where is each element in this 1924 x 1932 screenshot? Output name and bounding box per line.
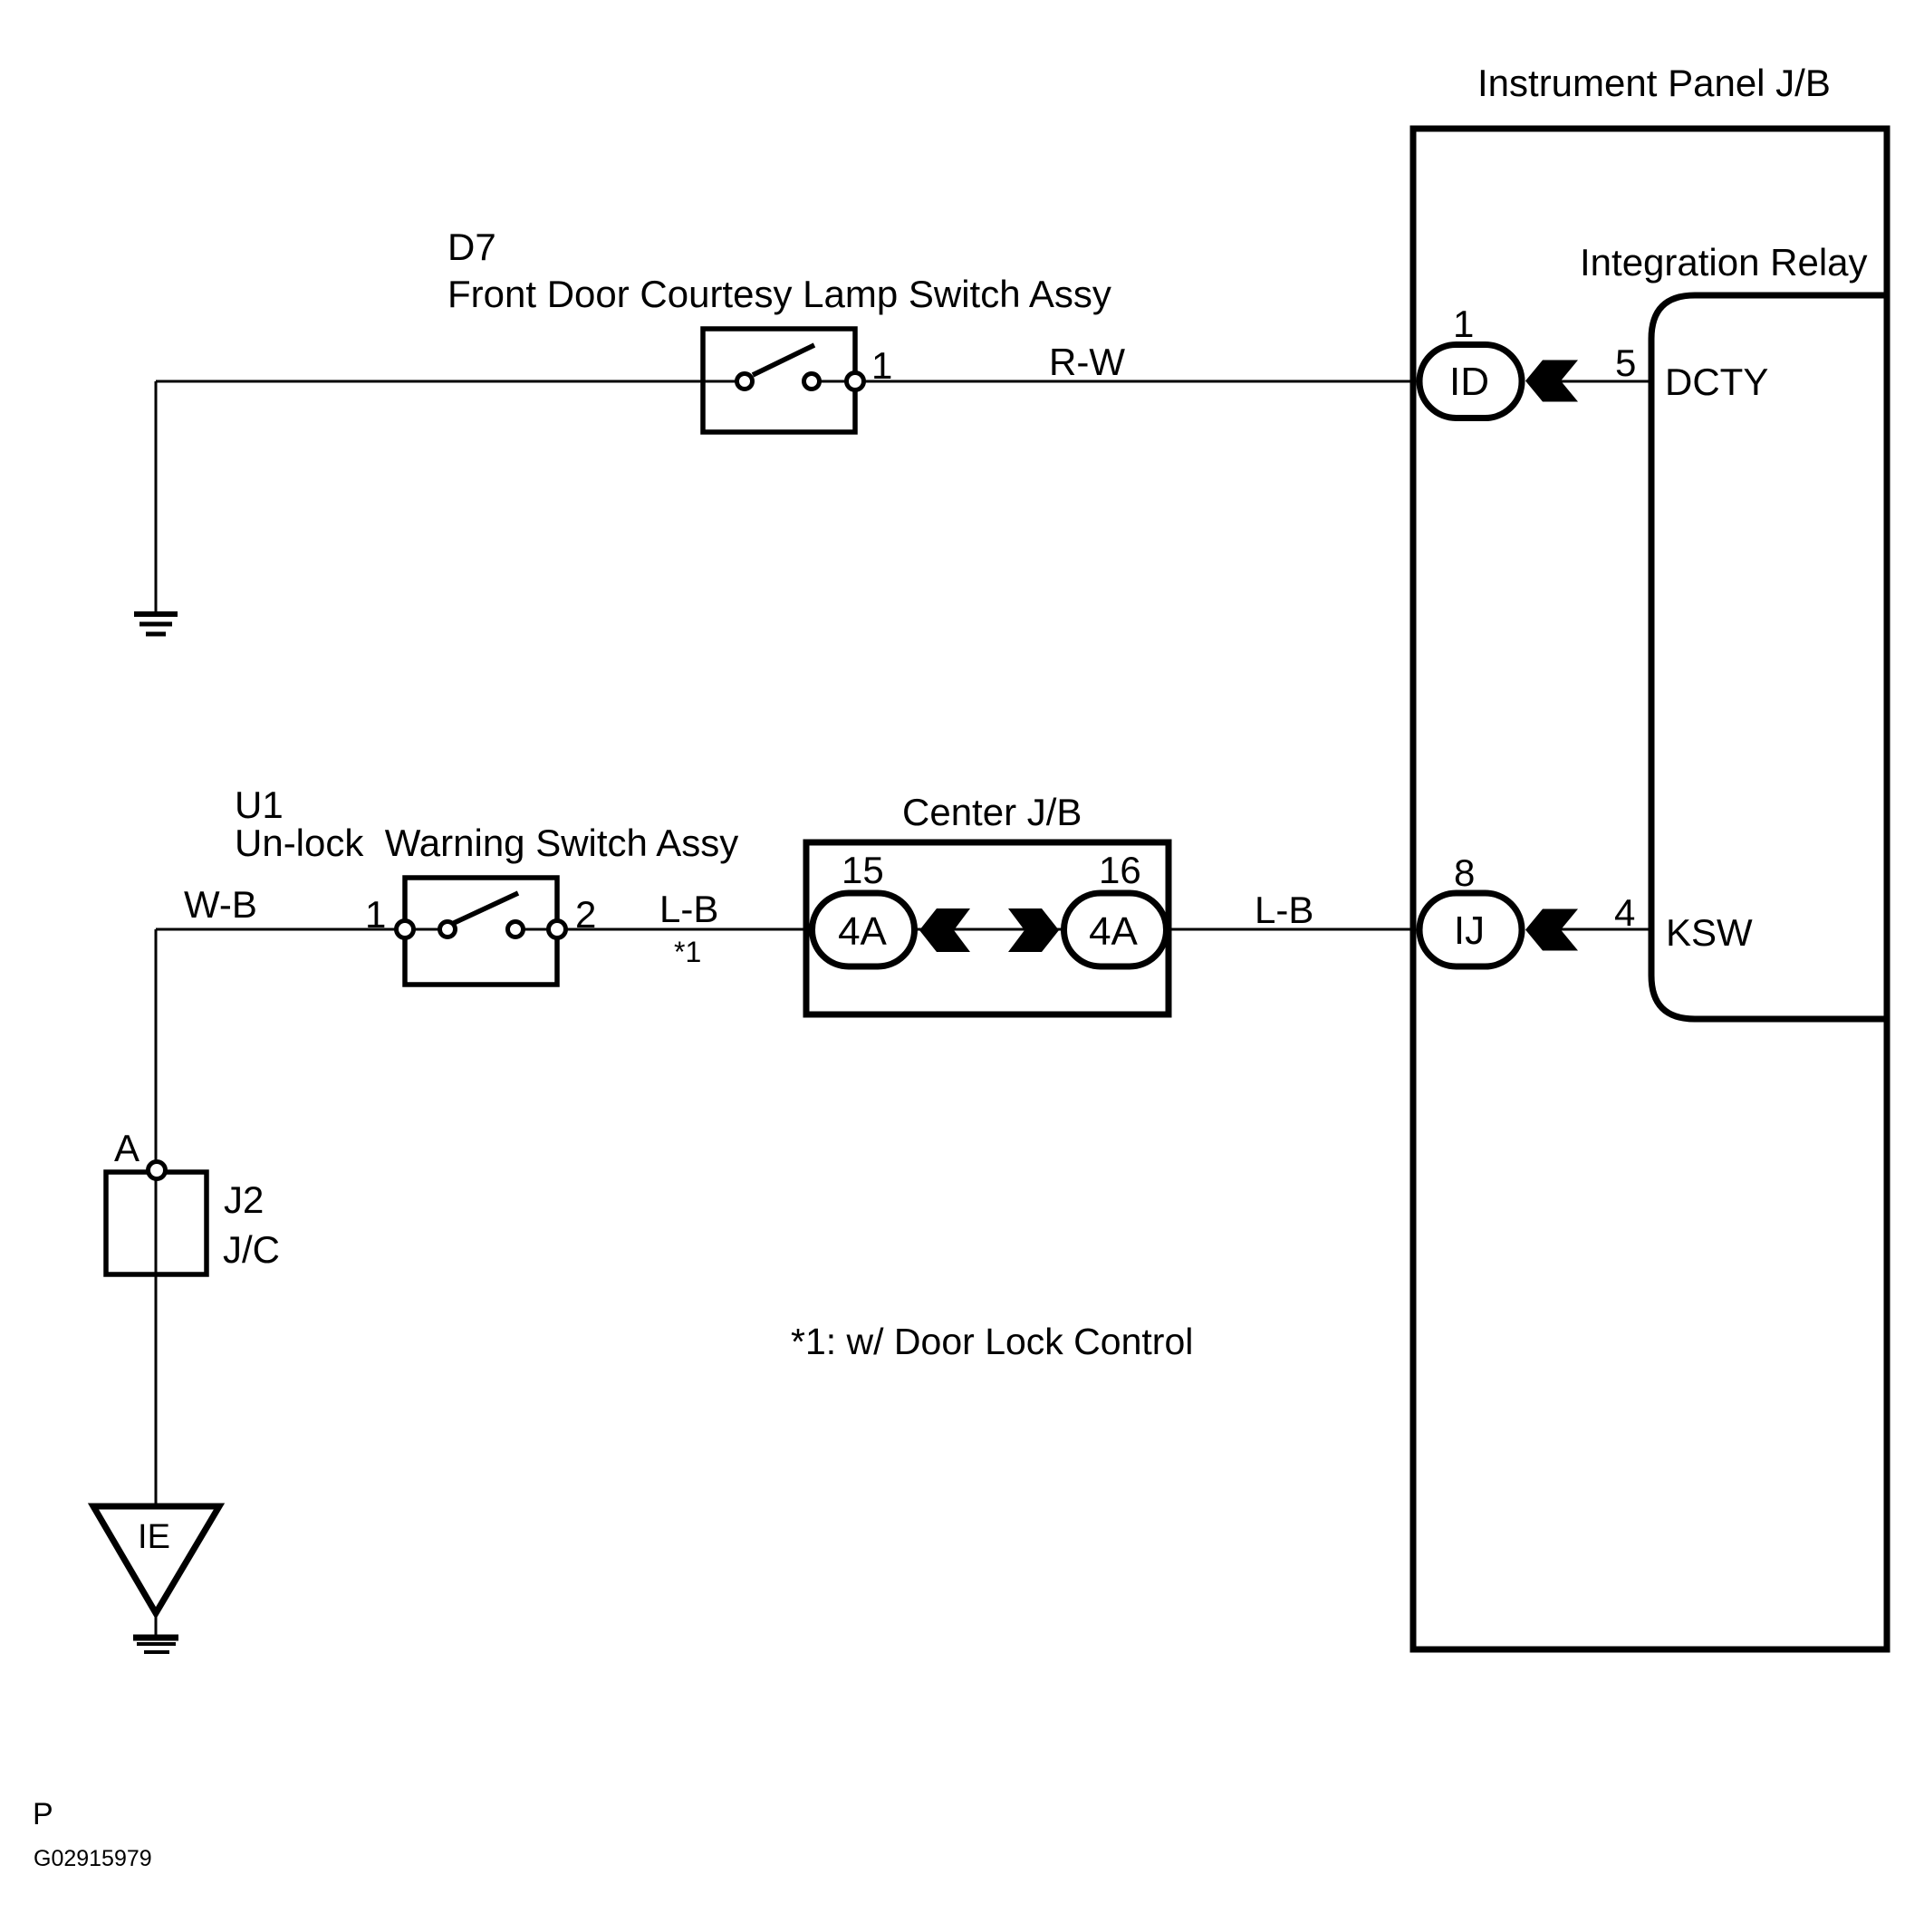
svg-text:1: 1 [871, 344, 892, 387]
svg-text:5: 5 [1615, 341, 1636, 384]
svg-text:IJ: IJ [1454, 908, 1485, 953]
svg-text:Un-lock Warning Switch Assy: Un-lock Warning Switch Assy [235, 822, 738, 864]
svg-text:16: 16 [1099, 849, 1141, 891]
svg-text:15: 15 [842, 849, 884, 891]
svg-text:IE: IE [138, 1518, 170, 1556]
svg-text:8: 8 [1454, 851, 1475, 894]
svg-text:P: P [33, 1797, 53, 1831]
svg-text:4A: 4A [838, 909, 887, 954]
svg-text:G02915979: G02915979 [34, 1846, 152, 1871]
svg-text:4A: 4A [1089, 909, 1138, 954]
svg-text:1: 1 [1453, 303, 1474, 345]
svg-text:ID: ID [1449, 360, 1489, 404]
svg-text:2: 2 [575, 893, 596, 936]
svg-text:KSW: KSW [1666, 911, 1753, 954]
svg-text:*1: w/ Door Lock Control: *1: w/ Door Lock Control [791, 1321, 1193, 1362]
svg-text:Center J/B: Center J/B [902, 791, 1082, 833]
svg-text:Instrument Panel J/B: Instrument Panel J/B [1477, 62, 1831, 104]
svg-text:DCTY: DCTY [1665, 360, 1768, 403]
svg-text:Front Door Courtesy Lamp Switc: Front Door Courtesy Lamp Switch Assy [447, 273, 1111, 315]
svg-text:D7: D7 [447, 226, 496, 268]
svg-text:U1: U1 [235, 783, 284, 826]
svg-text:A: A [114, 1127, 139, 1169]
svg-text:R-W: R-W [1049, 341, 1125, 383]
svg-text:Integration Relay: Integration Relay [1580, 241, 1868, 284]
svg-text:4: 4 [1614, 891, 1635, 934]
svg-text:W-B: W-B [184, 883, 257, 926]
svg-text:1: 1 [365, 893, 386, 936]
svg-text:J2: J2 [224, 1178, 264, 1221]
svg-text:L-B: L-B [1255, 889, 1313, 931]
svg-text:J/C: J/C [223, 1228, 280, 1271]
svg-text:L-B: L-B [659, 888, 718, 930]
svg-text:*1: *1 [674, 936, 701, 968]
